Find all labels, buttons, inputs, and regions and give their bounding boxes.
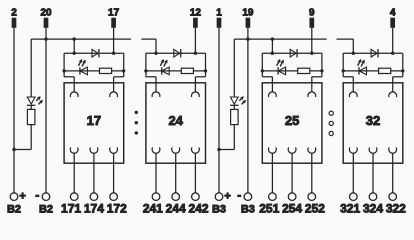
svg-text:2: 2 <box>11 8 17 19</box>
svg-text:32: 32 <box>366 113 380 128</box>
svg-text:B3: B3 <box>212 204 226 216</box>
svg-text:12: 12 <box>190 8 202 19</box>
svg-text:4: 4 <box>390 8 396 19</box>
svg-text:+: + <box>224 190 230 202</box>
svg-text:20: 20 <box>40 8 52 19</box>
svg-text:241 244 242: 241 244 242 <box>143 202 209 216</box>
svg-text:17: 17 <box>108 8 120 19</box>
svg-text:171 174 172: 171 174 172 <box>61 202 127 216</box>
svg-text:-: - <box>35 188 39 202</box>
svg-text:321 324 322: 321 324 322 <box>340 202 406 216</box>
svg-text:17: 17 <box>87 113 101 128</box>
svg-text:+: + <box>19 190 25 202</box>
svg-text:B2: B2 <box>39 204 53 216</box>
svg-text:B3: B3 <box>241 204 255 216</box>
svg-text:251 254 252: 251 254 252 <box>259 202 325 216</box>
svg-text:19: 19 <box>242 8 254 19</box>
svg-text:25: 25 <box>285 113 299 128</box>
svg-text:9: 9 <box>309 8 315 19</box>
svg-text:B2: B2 <box>7 204 21 216</box>
svg-text:24: 24 <box>168 113 183 128</box>
svg-text:1: 1 <box>216 8 222 19</box>
svg-text:-: - <box>237 188 241 202</box>
